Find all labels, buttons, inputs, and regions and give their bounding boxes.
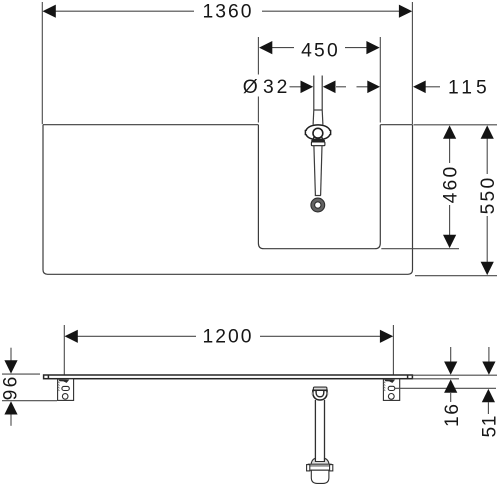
siphon flange cap — [313, 387, 327, 390]
dimension 1360 line — [42, 2, 412, 124]
dimension 450 arrows — [259, 41, 380, 54]
siphon tailpipe — [315, 400, 324, 462]
dimension 51 lower line — [487, 402, 489, 414]
svg-text:32: 32 — [263, 77, 290, 98]
dimension 51 upper line — [488, 347, 490, 362]
basin bottom extension right — [381, 248, 459, 250]
siphon cup rim — [311, 458, 329, 465]
slab bottom extension right — [412, 378, 459, 380]
dimension 16 upper arrow — [444, 362, 457, 375]
drain pipe plan view — [313, 76, 323, 125]
dimension 550 line — [486, 138, 488, 262]
dimension 550 arrows — [481, 125, 494, 275]
dimension 450 line — [272, 47, 367, 49]
basin cutout outline — [258, 125, 380, 249]
dimension 460 arrows — [443, 125, 456, 248]
dimension 96 extension lines — [2, 348, 57, 426]
siphon cup body — [311, 470, 329, 483]
svg-text:1200: 1200 — [203, 327, 254, 348]
basin left extension line — [257, 37, 259, 123]
svg-text:16: 16 — [442, 403, 463, 427]
drain outlet ring — [311, 198, 325, 212]
bracket slot extension right — [395, 387, 496, 389]
dimension 16 lower arrow — [444, 379, 457, 392]
console slab front view — [44, 375, 413, 379]
dimension 115 tail line — [357, 86, 441, 88]
dimension 96 arrows — [4, 360, 17, 414]
slab top extension right — [412, 374, 497, 376]
dimension 1200 arrows — [65, 330, 394, 343]
right mounting bracket — [383, 379, 399, 401]
svg-text:96: 96 — [1, 374, 22, 400]
console top outline — [43, 125, 413, 275]
dimension 460 line — [449, 138, 451, 235]
svg-text:550: 550 — [478, 176, 499, 215]
svg-text:Ø: Ø — [243, 77, 258, 98]
drain tailpipe plan view — [314, 146, 322, 199]
svg-text:1360: 1360 — [203, 2, 254, 23]
svg-text:51: 51 — [479, 415, 500, 437]
dimension diameter 32 lines — [290, 86, 347, 88]
siphon dome — [312, 390, 329, 400]
svg-text:450: 450 — [301, 41, 340, 62]
dimension diameter 32 arrows — [301, 81, 336, 94]
svg-text:460: 460 — [441, 165, 462, 204]
siphon nut band — [307, 464, 333, 471]
dimension 16 lower line — [450, 393, 452, 402]
console top edge extension right — [414, 124, 498, 126]
dimension 51 lower arrow — [482, 389, 495, 402]
left mounting bracket — [58, 379, 74, 401]
dimension 51 upper arrow — [482, 362, 495, 375]
dimension 16 upper line — [450, 347, 452, 362]
dimension 1200 line — [64, 325, 393, 375]
basin right extension line — [379, 37, 381, 123]
dimension 1360 arrows — [43, 5, 413, 18]
console bottom extension right — [415, 275, 497, 277]
dimension 115 arrows — [367, 81, 425, 94]
svg-text:115: 115 — [448, 78, 491, 99]
drain swivel joint — [305, 125, 330, 146]
